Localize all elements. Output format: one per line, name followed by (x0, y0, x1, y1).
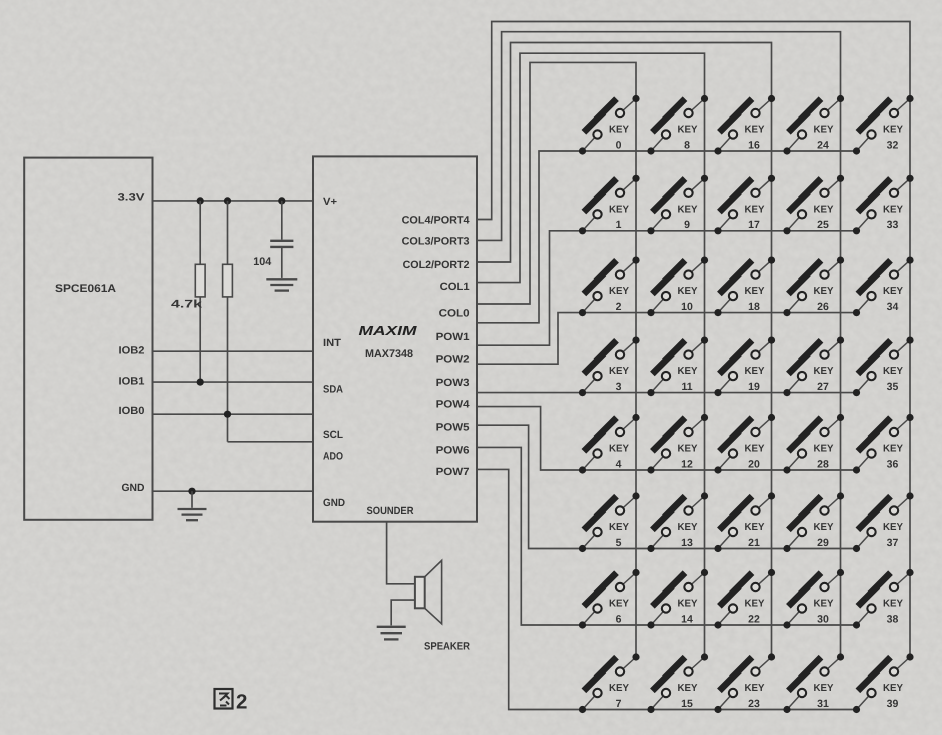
svg-text:22: 22 (748, 613, 760, 625)
key switch KEY 19 (714, 337, 775, 397)
wire column 1 vertical (635, 99, 637, 658)
svg-text:35: 35 (887, 381, 899, 393)
svg-text:KEY: KEY (814, 366, 834, 377)
svg-text:KEY: KEY (883, 204, 903, 215)
label KEY 26 (814, 286, 834, 313)
key switch KEY 29 (783, 492, 844, 552)
label KEY 29 (814, 522, 834, 549)
svg-text:8: 8 (684, 139, 690, 151)
wire POW2 net / row 1 wire (477, 231, 857, 345)
svg-text:104: 104 (253, 256, 272, 268)
node J2 on 3.3V rail (224, 197, 231, 204)
label KEY 16 (745, 125, 765, 152)
wire IOB2 to INT (153, 350, 314, 352)
svg-text:KEY: KEY (609, 286, 629, 297)
label KEY 31 (814, 683, 834, 710)
key switch KEY 5 (579, 492, 640, 552)
key switch KEY 17 (714, 175, 775, 235)
key switch KEY 25 (783, 175, 844, 235)
label KEY 5 (609, 522, 629, 549)
svg-text:SCL: SCL (323, 429, 344, 441)
svg-text:KEY: KEY (678, 599, 698, 610)
label KEY 22 (745, 599, 765, 626)
label KEY 39 (883, 683, 903, 710)
svg-text:0: 0 (616, 139, 622, 151)
key switch KEY 9 (647, 175, 708, 235)
wire COL1 net (477, 53, 705, 282)
wire POW4 net / row 3 wire (477, 392, 857, 394)
key switch KEY 30 (783, 569, 844, 629)
key switch KEY 1 (579, 175, 640, 235)
svg-text:28: 28 (817, 458, 829, 470)
svg-text:16: 16 (748, 139, 760, 151)
key switch KEY 36 (853, 414, 914, 474)
key switch KEY 16 (714, 95, 775, 155)
label KEY 37 (883, 522, 903, 549)
svg-text:KEY: KEY (814, 125, 834, 136)
key switch KEY 18 (714, 257, 775, 317)
svg-text:IOB1: IOB1 (119, 376, 145, 388)
svg-text:KEY: KEY (678, 683, 698, 694)
svg-text:10: 10 (681, 301, 693, 313)
key switch KEY 2 (579, 257, 640, 317)
svg-text:ADO: ADO (323, 451, 343, 463)
label KEY 3 (609, 366, 629, 393)
svg-text:KEY: KEY (745, 366, 765, 377)
key switch KEY 27 (783, 337, 844, 397)
key switch KEY 28 (783, 414, 844, 474)
label KEY 0 (609, 125, 629, 152)
svg-text:KEY: KEY (609, 125, 629, 136)
label KEY 12 (678, 444, 698, 471)
label KEY 18 (745, 286, 765, 313)
label KEY 17 (745, 204, 765, 231)
key switch KEY 21 (714, 492, 775, 552)
label KEY 9 (678, 204, 698, 231)
svg-text:4.7k: 4.7k (171, 299, 203, 311)
svg-text:27: 27 (817, 381, 829, 393)
wire column 5 vertical (909, 99, 911, 658)
key switch KEY 11 (647, 337, 708, 397)
label KEY 20 (745, 444, 765, 471)
label KEY 24 (814, 125, 834, 152)
wire IOB0 (153, 413, 314, 415)
label KEY 6 (609, 599, 629, 626)
svg-text:12: 12 (681, 458, 693, 470)
wire POW7 net / row 6 wire (477, 447, 857, 625)
label KEY 36 (883, 444, 903, 471)
key switch KEY 23 (714, 653, 775, 713)
svg-text:36: 36 (887, 458, 899, 470)
svg-text:29: 29 (817, 537, 829, 549)
svg-text:11: 11 (681, 381, 692, 393)
svg-text:KEY: KEY (814, 683, 834, 694)
node R2/IOB0 junction (224, 411, 231, 418)
svg-text:INT: INT (323, 337, 342, 349)
svg-text:4: 4 (616, 458, 622, 470)
ground GND2 (U1 GND) (178, 491, 207, 520)
svg-text:39: 39 (887, 698, 899, 710)
label KEY 30 (814, 599, 834, 626)
svg-text:KEY: KEY (745, 444, 765, 455)
wire 3.3V rail (153, 200, 314, 202)
label KEY 10 (678, 286, 698, 313)
svg-text:SPEAKER: SPEAKER (424, 640, 470, 652)
label KEY 27 (814, 366, 834, 393)
svg-text:KEY: KEY (883, 599, 903, 610)
IC U1 SPCE061A (24, 158, 152, 520)
svg-text:COL3/PORT3: COL3/PORT3 (402, 236, 470, 248)
svg-text:34: 34 (887, 301, 899, 313)
label KEY 23 (745, 683, 765, 710)
svg-text:KEY: KEY (609, 683, 629, 694)
svg-text:13: 13 (681, 537, 693, 549)
svg-text:COL0: COL0 (439, 308, 470, 320)
svg-text:POW7: POW7 (436, 466, 470, 478)
svg-text:KEY: KEY (883, 444, 903, 455)
key switch KEY 12 (647, 414, 708, 474)
svg-text:KEY: KEY (609, 204, 629, 215)
ground GND1 (under C1) (266, 279, 297, 290)
wire POW8 net / row 7 wire (477, 469, 857, 709)
label KEY 4 (609, 444, 629, 471)
key switch KEY 38 (853, 569, 914, 629)
key switch KEY 13 (647, 492, 708, 552)
label KEY 19 (745, 366, 765, 393)
node J3 on 3.3V rail (278, 197, 285, 204)
svg-text:KEY: KEY (678, 125, 698, 136)
svg-text:COL2/PORT2: COL2/PORT2 (403, 259, 470, 271)
key switch KEY 14 (647, 569, 708, 629)
svg-text:KEY: KEY (678, 444, 698, 455)
label KEY 15 (678, 683, 698, 710)
svg-text:7: 7 (616, 698, 622, 710)
wire POW5 net / row 4 wire (477, 407, 857, 470)
svg-text:3: 3 (616, 381, 622, 393)
key switch KEY 34 (853, 257, 914, 317)
svg-text:19: 19 (748, 381, 760, 393)
IC U2 MAX7348 (313, 156, 477, 521)
svg-text:KEY: KEY (883, 125, 903, 136)
svg-text:5: 5 (616, 537, 622, 549)
svg-text:KEY: KEY (745, 599, 765, 610)
svg-text:KEY: KEY (745, 204, 765, 215)
svg-text:1: 1 (616, 219, 622, 231)
svg-text:KEY: KEY (883, 286, 903, 297)
label KEY 1 (609, 204, 629, 231)
svg-text:20: 20 (748, 458, 760, 470)
svg-text:KEY: KEY (814, 286, 834, 297)
svg-text:POW3: POW3 (436, 377, 470, 389)
svg-text:18: 18 (748, 301, 760, 313)
svg-text:POW6: POW6 (436, 445, 470, 457)
svg-text:KEY: KEY (814, 599, 834, 610)
svg-text:6: 6 (616, 613, 622, 625)
key switch KEY 3 (579, 337, 640, 397)
label KEY 35 (883, 366, 903, 393)
key switch KEY 26 (783, 257, 844, 317)
wire COL3/PORT3 net (477, 32, 841, 241)
svg-text:COL1: COL1 (440, 281, 470, 293)
svg-text:MAXIM: MAXIM (359, 323, 419, 338)
capacitor C1 104 (270, 201, 293, 278)
wire speaker to ground (391, 600, 415, 625)
wire POW6 net / row 5 wire (477, 425, 857, 548)
svg-text:9: 9 (684, 219, 690, 231)
key switch KEY 10 (647, 257, 708, 317)
svg-text:2: 2 (616, 301, 622, 313)
svg-text:GND: GND (122, 482, 145, 494)
label KEY 25 (814, 204, 834, 231)
key switch KEY 7 (579, 653, 640, 713)
svg-text:KEY: KEY (745, 286, 765, 297)
svg-text:KEY: KEY (609, 366, 629, 377)
svg-text:KEY: KEY (745, 522, 765, 533)
wire column 3 vertical (771, 99, 773, 658)
svg-text:33: 33 (887, 219, 899, 231)
node J1 on 3.3V rail (197, 197, 204, 204)
svg-text:SPCE061A: SPCE061A (55, 283, 116, 295)
svg-text:POW4: POW4 (436, 399, 470, 411)
svg-text:KEY: KEY (883, 683, 903, 694)
svg-text:14: 14 (681, 613, 693, 625)
wire COL2/PORT2 net (477, 43, 772, 263)
key switch KEY 24 (783, 95, 844, 155)
svg-text:KEY: KEY (745, 125, 765, 136)
svg-text:26: 26 (817, 301, 829, 313)
svg-text:V+: V+ (323, 196, 337, 208)
key switch KEY 33 (853, 175, 914, 235)
wire SOUNDER to speaker (387, 522, 415, 584)
label KEY 33 (883, 204, 903, 231)
wire COL4/PORT4 net (477, 22, 910, 220)
svg-text:KEY: KEY (883, 366, 903, 377)
key switch KEY 32 (853, 95, 914, 155)
svg-text:2: 2 (236, 691, 247, 714)
svg-text:KEY: KEY (678, 522, 698, 533)
key switch KEY 35 (853, 337, 914, 397)
svg-text:KEY: KEY (609, 522, 629, 533)
svg-text:KEY: KEY (609, 599, 629, 610)
key switch KEY 39 (853, 653, 914, 713)
ground GND3 (speaker) (377, 627, 406, 640)
svg-text:IOB2: IOB2 (119, 344, 145, 356)
key switch KEY 0 (579, 95, 640, 155)
label KEY 28 (814, 444, 834, 471)
svg-text:KEY: KEY (883, 522, 903, 533)
svg-text:KEY: KEY (814, 204, 834, 215)
svg-text:24: 24 (817, 139, 829, 151)
speaker LS1 (415, 560, 442, 623)
svg-text:31: 31 (817, 698, 829, 710)
label KEY 38 (883, 599, 903, 626)
label KEY 7 (609, 683, 629, 710)
node R1/IOB1 junction (197, 379, 204, 386)
svg-text:21: 21 (748, 537, 760, 549)
svg-text:38: 38 (887, 613, 899, 625)
svg-text:17: 17 (748, 219, 760, 231)
caption 图2 (215, 689, 233, 709)
svg-text:KEY: KEY (609, 444, 629, 455)
key switch KEY 4 (579, 414, 640, 474)
key switch KEY 15 (647, 653, 708, 713)
svg-text:SOUNDER: SOUNDER (367, 505, 414, 517)
resistor R1 4.7k (195, 201, 205, 382)
wire GND link (153, 490, 314, 492)
label KEY 11 (678, 366, 698, 393)
label KEY 34 (883, 286, 903, 313)
svg-text:KEY: KEY (745, 683, 765, 694)
wire IOB1 to SDA (153, 381, 314, 383)
svg-text:3.3V: 3.3V (118, 192, 145, 204)
wire POW1 net / row 0 wire (477, 151, 857, 323)
label KEY 32 (883, 125, 903, 152)
node GND junction (188, 488, 195, 495)
key switch KEY 20 (714, 414, 775, 474)
label KEY 2 (609, 286, 629, 313)
svg-text:POW2: POW2 (436, 354, 470, 366)
resistor R2 4.7k (223, 201, 233, 442)
key switch KEY 31 (783, 653, 844, 713)
wire COL0 net (477, 62, 636, 304)
key switch KEY 22 (714, 569, 775, 629)
svg-text:KEY: KEY (678, 286, 698, 297)
wire column 4 vertical (840, 99, 842, 658)
svg-text:COL4/PORT4: COL4/PORT4 (402, 215, 470, 227)
svg-text:GND: GND (323, 497, 345, 509)
label KEY 21 (745, 522, 765, 549)
svg-text:25: 25 (817, 219, 829, 231)
svg-text:37: 37 (887, 537, 899, 549)
key switch KEY 8 (647, 95, 708, 155)
label KEY 14 (678, 599, 698, 626)
svg-text:KEY: KEY (814, 444, 834, 455)
svg-text:SDA: SDA (323, 383, 343, 395)
svg-text:30: 30 (817, 613, 829, 625)
wire SCL link (228, 441, 314, 443)
label KEY 13 (678, 522, 698, 549)
svg-text:KEY: KEY (678, 366, 698, 377)
svg-text:POW5: POW5 (436, 422, 470, 434)
svg-text:KEY: KEY (814, 522, 834, 533)
svg-text:IOB0: IOB0 (119, 405, 145, 417)
svg-text:15: 15 (681, 698, 693, 710)
svg-text:23: 23 (748, 698, 760, 710)
wire POW3 net / row 2 wire (477, 313, 857, 365)
key switch KEY 6 (579, 569, 640, 629)
key switch KEY 37 (853, 492, 914, 552)
svg-text:POW1: POW1 (436, 331, 470, 343)
svg-text:32: 32 (887, 139, 899, 151)
svg-text:KEY: KEY (678, 204, 698, 215)
svg-text:MAX7348: MAX7348 (365, 348, 413, 360)
wire column 2 vertical (704, 99, 706, 658)
label KEY 8 (678, 125, 698, 152)
